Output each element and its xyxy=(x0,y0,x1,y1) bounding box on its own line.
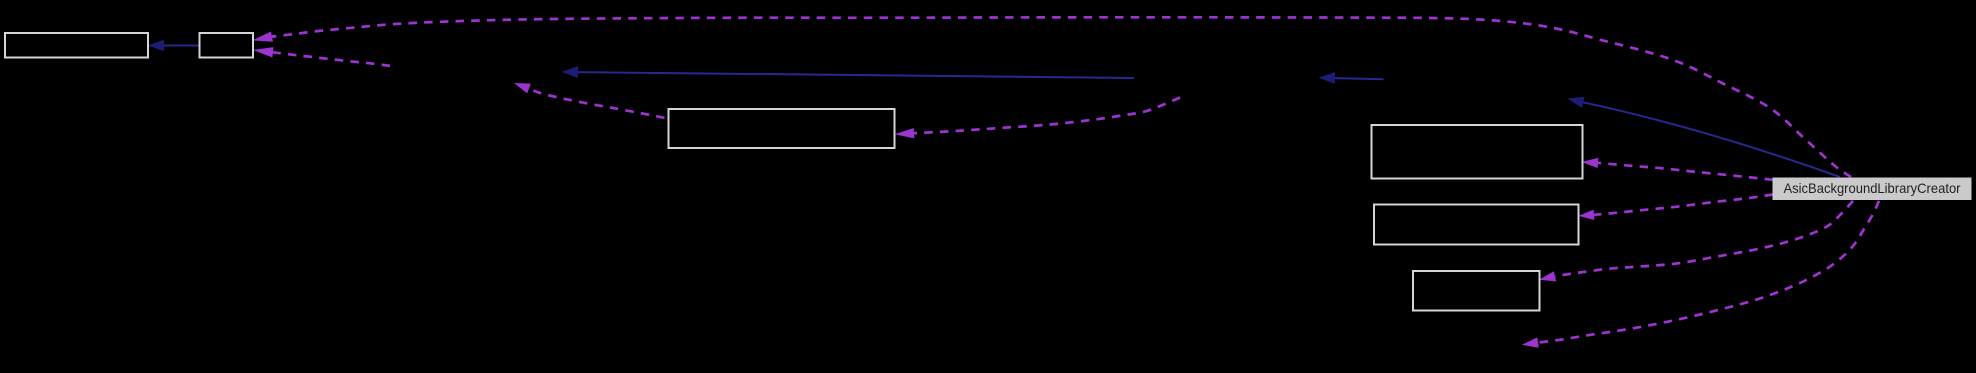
svg-text:AsicBackgroundLibraryCreator: AsicBackgroundLibraryCreator xyxy=(1784,181,1961,196)
inheritance arrow E3 xyxy=(1335,78,1384,79)
node box middle xyxy=(669,109,895,148)
inheritance arrow E2 xyxy=(578,72,1134,78)
usage edge P5 (label to right-1) xyxy=(1598,163,1773,180)
usage edge P1 (label to top-left-2 upper) xyxy=(272,17,1851,177)
node box top-left-2 xyxy=(200,33,254,58)
usage edge P6 (label to right-2) xyxy=(1594,195,1773,215)
usage edge P8 (label to hidden node bottom) xyxy=(1538,201,1879,343)
node box top-left-1 xyxy=(5,33,148,58)
node box right-2 xyxy=(1374,205,1579,245)
usage edge P7 (label to right-3) xyxy=(1555,201,1853,276)
usage edge P4 (to middle box) xyxy=(914,98,1180,134)
inheritance arrow E4 xyxy=(1583,102,1840,177)
usage edge P3 (middle box to hidden node) xyxy=(529,89,665,118)
inheritance arrow E1 xyxy=(164,45,199,47)
node AsicBackgroundLibraryCreator xyxy=(1773,178,1972,201)
node box right-1 xyxy=(1372,125,1583,179)
usage edge P2 (to top-left-2 lower) xyxy=(273,52,390,66)
node box right-3 xyxy=(1413,271,1540,311)
